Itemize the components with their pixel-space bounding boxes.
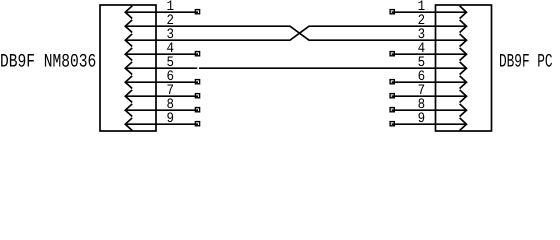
wire stub J2 pin 4 (unconnected) bbox=[392, 53, 467, 55]
J1 pin 6 female-pin arrow bbox=[125, 76, 132, 89]
wire stub J1 pin 8 (unconnected) bbox=[125, 109, 198, 111]
connector J2 body (DB9F PC) bbox=[436, 5, 492, 131]
open-end terminal square J2 pin 4 bbox=[390, 52, 394, 56]
wire stub J1 pin 4 (unconnected) bbox=[125, 53, 198, 55]
connector J1 body (DB9F NM8036) bbox=[100, 5, 156, 131]
open-end terminal square J1 pin 7 bbox=[195, 94, 199, 98]
J1 pin 9 female-pin arrow bbox=[125, 118, 132, 131]
open-end terminal square J1 pin 8 bbox=[195, 108, 199, 112]
J1 pin 7 female-pin arrow bbox=[125, 90, 132, 103]
J1 pin 8 female-pin arrow bbox=[125, 104, 132, 117]
open-end terminal square J2 pin 8 bbox=[390, 108, 394, 112]
J2 pin 2 female-pin arrow bbox=[460, 20, 467, 33]
J1 pin 5 female-pin arrow bbox=[125, 62, 132, 75]
wire stub J2 pin 8 (unconnected) bbox=[392, 109, 467, 111]
J1 pin 2 female-pin arrow bbox=[125, 20, 132, 33]
wire net RXD: J1 pin 2 crossing to J2 pin 3 bbox=[125, 26, 466, 40]
open-end terminal square J2 pin 1 bbox=[390, 10, 394, 14]
open-end terminal square J2 pin 9 bbox=[390, 122, 394, 126]
wire stub J2 pin 6 (unconnected) bbox=[392, 81, 467, 83]
wire net TXD: J1 pin 3 crossing to J2 pin 2 bbox=[125, 26, 466, 40]
wire stub J1 pin 6 (unconnected) bbox=[125, 81, 198, 83]
wire net GND: J1 pin 5 straight to J2 pin 5 (left segment) bbox=[125, 67, 197, 69]
wire stub J1 pin 1 (unconnected) bbox=[125, 11, 198, 13]
svg-text:DB9F NM8036: DB9F NM8036 bbox=[0, 51, 96, 72]
J1 pin 3 female-pin arrow bbox=[125, 34, 132, 47]
J2 pin 8 female-pin arrow bbox=[460, 104, 467, 117]
open-end terminal square J1 pin 1 bbox=[195, 10, 199, 14]
J2 pin 4 female-pin arrow bbox=[460, 48, 467, 61]
open-end terminal square J1 pin 9 bbox=[195, 122, 199, 126]
J2 pin 5 female-pin arrow bbox=[460, 62, 467, 75]
wire net GND: J1 pin 5 straight to J2 pin 5 (right segment) bbox=[199, 67, 467, 69]
wire stub J2 pin 7 (unconnected) bbox=[392, 95, 467, 97]
open-end terminal square J2 pin 7 bbox=[390, 94, 394, 98]
svg-text:9: 9 bbox=[167, 110, 175, 126]
J1 pin 1 female-pin arrow bbox=[125, 6, 132, 19]
open-end terminal square J1 pin 6 bbox=[195, 80, 199, 84]
wire stub J1 pin 9 (unconnected) bbox=[125, 123, 198, 125]
J2 pin 3 female-pin arrow bbox=[460, 34, 467, 47]
J2 pin 1 female-pin arrow bbox=[460, 6, 467, 19]
J2 pin 6 female-pin arrow bbox=[460, 76, 467, 89]
open-end terminal square J1 pin 4 bbox=[195, 52, 199, 56]
open-end terminal square J2 pin 6 bbox=[390, 80, 394, 84]
wire stub J2 pin 1 (unconnected) bbox=[392, 11, 467, 13]
J1 pin 4 female-pin arrow bbox=[125, 48, 132, 61]
wire stub J2 pin 9 (unconnected) bbox=[392, 123, 467, 125]
svg-text:DB9F PC: DB9F PC bbox=[499, 51, 553, 72]
J2 pin 9 female-pin arrow bbox=[460, 118, 467, 131]
svg-text:9: 9 bbox=[418, 110, 426, 126]
wire stub J1 pin 7 (unconnected) bbox=[125, 95, 198, 97]
J2 pin 7 female-pin arrow bbox=[460, 90, 467, 103]
